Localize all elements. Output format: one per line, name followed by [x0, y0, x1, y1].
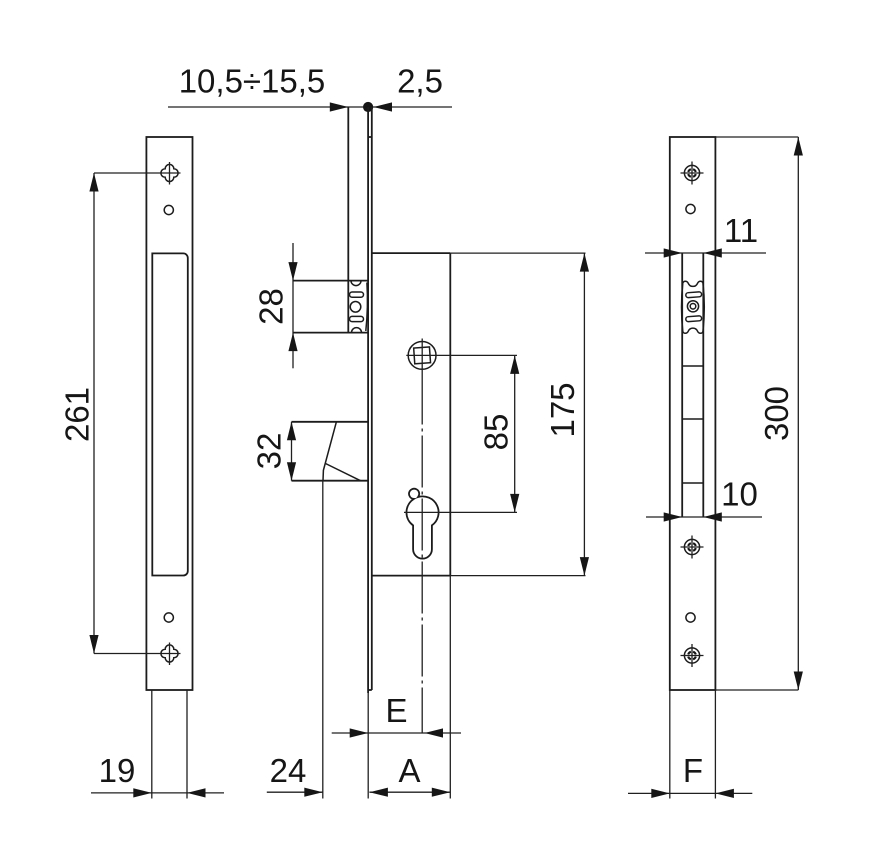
- dim 300 arrow down: [794, 672, 803, 691]
- cylinder profile: [406, 489, 438, 559]
- roller top edge: [683, 281, 703, 286]
- svg-text:85: 85: [478, 414, 515, 451]
- follower block bottom edge: [293, 332, 368, 334]
- latch slope front: [323, 422, 336, 481]
- dim E arrow left: [425, 728, 444, 737]
- dim A line: [369, 791, 450, 793]
- dim F extension left: [669, 690, 671, 799]
- slot division 3: [682, 482, 703, 484]
- dim 19 line: [91, 792, 224, 794]
- hole H2 bottom: [164, 613, 173, 622]
- strike plate outline: [146, 137, 192, 690]
- spindle crosshair horizontal: [406, 354, 517, 356]
- follower block top edge: [293, 280, 368, 282]
- slot division 1: [682, 365, 703, 367]
- ext latch tip: [322, 481, 324, 799]
- faceplate outline: [670, 137, 716, 690]
- dim 32 arrow down: [287, 462, 296, 481]
- dim 19 arrow left: [187, 788, 206, 797]
- screw S2 crosshair: [169, 643, 171, 666]
- dim 175 arrow up: [580, 253, 589, 272]
- faceplate top edge: [368, 136, 372, 138]
- svg-text:E: E: [385, 692, 407, 729]
- dim 85 arrow down: [510, 494, 519, 513]
- dim 11 arrow right: [664, 248, 683, 257]
- screw T2: [681, 536, 704, 559]
- dim 11 arrow left: [703, 248, 722, 257]
- dim 28 arrow down: [288, 262, 297, 281]
- ext body back: [449, 576, 451, 799]
- hole H1 top: [164, 205, 173, 214]
- dim 300 line: [797, 137, 799, 690]
- dim A arrow left: [369, 788, 388, 797]
- dim 2,5 arrow left: [374, 102, 393, 111]
- dim 11 line: [645, 252, 766, 254]
- dim 261 leader bottom: [94, 653, 181, 655]
- screw T3: [681, 644, 704, 667]
- follower slot upper: [350, 292, 364, 297]
- dim E arrow right: [350, 728, 369, 737]
- dim A arrow right: [432, 788, 451, 797]
- screw T1: [681, 162, 704, 185]
- svg-text:A: A: [398, 752, 420, 789]
- dim 261 arrow up: [89, 173, 98, 192]
- ext faceplate front: [367, 693, 369, 799]
- roller outline right: [703, 283, 704, 331]
- dim 261 line: [93, 173, 95, 654]
- svg-text:10: 10: [721, 476, 758, 513]
- follower block right edge: [366, 283, 368, 332]
- svg-text:11: 11: [724, 212, 758, 249]
- dim 19 extension right: [186, 690, 188, 799]
- dim 24 line: [267, 791, 323, 793]
- dim 24 arrow right: [304, 788, 323, 797]
- dim 10 arrow left: [703, 512, 722, 521]
- dim 32 arrow up: [287, 422, 296, 441]
- roller slot upper: [686, 292, 702, 298]
- dim 261 arrow down: [89, 635, 98, 654]
- follower circle: [350, 302, 361, 313]
- dim 10,5-15,5 arrow right: [330, 102, 349, 111]
- follower bottom notch: [352, 328, 362, 333]
- spindle crosshair vertical: [421, 339, 423, 373]
- follower slot lower: [350, 316, 364, 321]
- svg-text:300: 300: [758, 386, 795, 441]
- dim 10 line: [646, 516, 762, 518]
- lock body right edge: [449, 253, 451, 575]
- svg-text:F: F: [683, 752, 703, 789]
- latch bottom edge: [292, 480, 369, 482]
- dim F extension right: [714, 690, 716, 799]
- dim 10 arrow right: [664, 512, 683, 521]
- RIGHT_VIEW: [628, 137, 803, 799]
- dim 300 arrow up: [794, 137, 803, 156]
- dim 261 leader top: [94, 172, 181, 174]
- latch diagonal: [326, 464, 361, 481]
- screw S1 crosshair: [169, 162, 171, 185]
- cylinder crosshair horizontal: [404, 511, 517, 513]
- latch top edge: [292, 421, 369, 423]
- screw S1 rosette top: [161, 164, 178, 181]
- svg-text:175: 175: [544, 382, 581, 437]
- bottom edge extension: [715, 689, 798, 691]
- channel line right: [702, 253, 704, 517]
- dim 85 line: [514, 355, 516, 512]
- hole R2: [686, 613, 695, 622]
- svg-text:28: 28: [253, 288, 290, 325]
- faceplate bottom edge: [368, 689, 372, 691]
- dim 85 arrow up: [510, 355, 519, 374]
- screw S2 rosette bottom: [161, 645, 178, 662]
- MIDDLE_VIEW: [168, 63, 589, 799]
- roller circle inner: [690, 304, 696, 310]
- roller circle outer: [687, 301, 698, 312]
- dim 28 arrow up: [288, 333, 297, 352]
- svg-text:2,5: 2,5: [397, 63, 443, 100]
- dim E line: [332, 732, 461, 734]
- dim F arrow right: [651, 789, 670, 798]
- dim F arrow left: [715, 789, 734, 798]
- svg-text:10,5÷15,5: 10,5÷15,5: [179, 63, 326, 100]
- roller bottom edge: [683, 328, 703, 333]
- dim 19 arrow right: [133, 788, 152, 797]
- svg-text:24: 24: [270, 752, 307, 789]
- dim 19 extension left: [151, 690, 153, 799]
- spindle square: [414, 347, 431, 364]
- lock body bottom edge: [372, 575, 451, 577]
- datum dot: [363, 102, 373, 112]
- top edge extension: [715, 136, 798, 138]
- roller outline left: [682, 283, 683, 331]
- dim 28 line: [292, 243, 294, 368]
- dim 175 line: [583, 253, 585, 575]
- slot division 2: [682, 418, 703, 420]
- dim F line: [628, 792, 752, 794]
- case front strip line: [347, 107, 349, 333]
- svg-text:261: 261: [59, 387, 96, 442]
- strike plate recess (rounded right corners): [152, 253, 188, 575]
- faceplate back line: [371, 107, 373, 690]
- center line dashed: [421, 373, 423, 734]
- spindle circle: [408, 342, 436, 370]
- dim top line: [168, 106, 452, 108]
- channel line left: [681, 253, 683, 517]
- faceplate front line: [367, 107, 369, 693]
- svg-text:19: 19: [99, 752, 136, 789]
- roller slot lower: [686, 316, 702, 322]
- dim 32 line: [291, 422, 293, 481]
- follower top notch: [351, 281, 361, 286]
- dim 175 arrow down: [580, 557, 589, 576]
- hole R1: [686, 204, 695, 213]
- lock body top edge: [372, 252, 451, 254]
- svg-text:32: 32: [251, 433, 288, 470]
- LEFT_VIEW: [59, 137, 225, 799]
